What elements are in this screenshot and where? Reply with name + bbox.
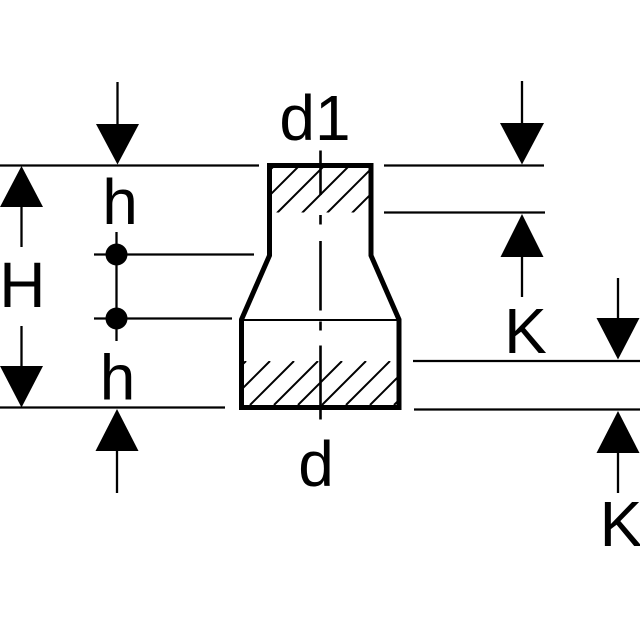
insertion depth dot 1 xyxy=(106,244,128,266)
K1 down arrow xyxy=(500,81,544,165)
h2 up arrow xyxy=(96,409,139,493)
reducer fitting outline xyxy=(242,166,400,408)
svg-text:h: h xyxy=(100,342,136,414)
hatch upper band (spigot d1) xyxy=(227,166,399,213)
centerline xyxy=(319,151,322,420)
svg-text:K: K xyxy=(600,488,640,560)
dot1 line xyxy=(94,253,254,255)
bottom dimension line left xyxy=(0,406,225,408)
K1 bottom line xyxy=(384,211,545,213)
svg-text:d1: d1 xyxy=(279,82,350,154)
H dimension down arrow xyxy=(0,326,43,408)
K2 bottom line xyxy=(414,408,640,410)
hatch lower band (spigot d) xyxy=(202,361,438,405)
K1 up arrow xyxy=(501,214,544,297)
svg-text:K: K xyxy=(504,295,547,367)
insertion depth dot 2 xyxy=(106,308,128,330)
svg-text:h: h xyxy=(102,166,138,238)
top dimension line left xyxy=(0,164,259,166)
h1 down arrow xyxy=(96,82,139,165)
svg-text:d: d xyxy=(298,428,334,500)
K2 down arrow xyxy=(597,278,640,360)
K2 up arrow xyxy=(597,411,640,493)
H dimension up arrow xyxy=(0,166,43,247)
dot2 line xyxy=(94,317,232,319)
svg-text:H: H xyxy=(0,249,46,321)
shoulder line xyxy=(242,319,400,321)
K2 top line xyxy=(413,360,640,362)
top dimension line right (K1 top) xyxy=(384,164,544,166)
dots connector line xyxy=(115,232,117,341)
